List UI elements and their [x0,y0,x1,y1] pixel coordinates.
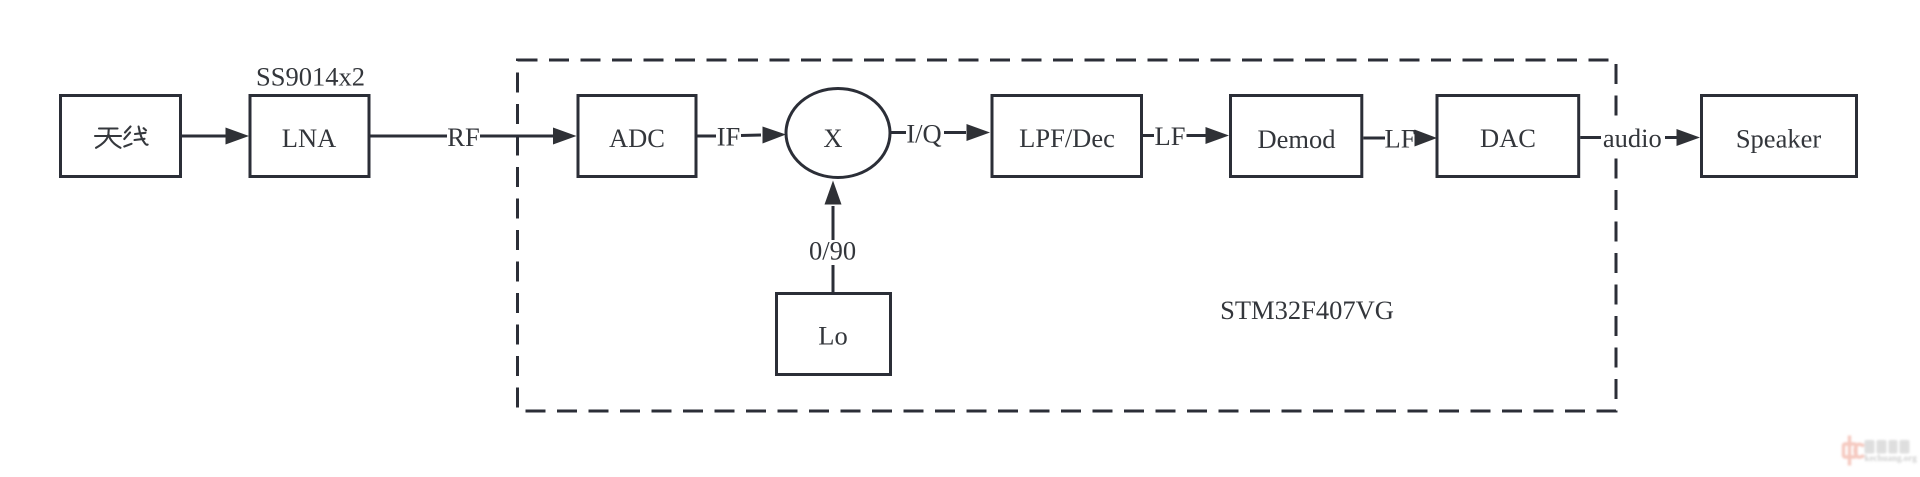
wire IF -> mixer [741,134,761,138]
wire LNA -> RF [371,135,448,138]
svg-text:LPF/Dec: LPF/Dec [1019,123,1115,153]
arrowhead into ADC [553,128,577,145]
dashed STM32F407VG boundary box [518,60,1617,411]
arrowhead into mixer [763,127,787,144]
wire audio -> Speaker [1665,136,1678,139]
svg-text:kechuang.org: kechuang.org [1865,453,1918,463]
block Demod [1231,96,1362,177]
svg-text:Lo: Lo [818,321,847,351]
block LPF/Dec [992,96,1142,177]
svg-text:I/Q: I/Q [906,119,941,149]
arrowhead into LNA [226,128,250,145]
block LNA [250,96,369,177]
mixer X (circle) [786,89,890,178]
svg-text:X: X [823,123,842,153]
wire DAC -> audio [1580,136,1601,139]
arrowhead into Speaker [1677,129,1701,146]
wire LF -> Demod [1187,134,1207,137]
arrowhead into DAC [1415,130,1438,147]
block ADC [578,96,696,177]
天线 glyph 天 (SVG path, CJK) [95,129,121,148]
wire LPF/Dec -> LF [1143,134,1154,137]
天线 glyph 线 (SVG path, CJK) [124,127,147,147]
wire 天线 -> LNA [182,135,228,138]
wire ADC -> IF [698,135,717,138]
svg-text:LF: LF [1155,121,1186,151]
arrowhead into LPF/Dec [967,124,991,141]
wire 0/90 -> mixer (upper segment) [832,206,835,240]
arrowhead into Demod [1206,127,1230,144]
wire RF -> ADC [480,135,555,138]
block Speaker [1702,96,1857,177]
svg-text:SS9014x2: SS9014x2 [256,62,365,92]
block 天线 (antenna) [61,96,181,177]
svg-text:DAC: DAC [1480,123,1536,153]
svg-text:LNA: LNA [282,123,336,153]
svg-text:ADC: ADC [609,123,665,153]
arrowhead into mixer bottom [825,181,842,205]
wire Lo -> 0/90 (lower segment) [832,265,835,292]
svg-text:audio: audio [1603,123,1662,153]
svg-text:IF: IF [717,122,741,152]
wire mixer -> I/Q [891,131,906,134]
svg-text:STM32F407VG: STM32F407VG [1220,295,1394,325]
svg-text:Speaker: Speaker [1736,124,1822,154]
wire I/Q -> LPF/Dec [944,131,966,134]
block Lo (local oscillator) [777,294,891,375]
label audio (white background covers dashed border) [1601,119,1664,158]
svg-text:RF: RF [447,122,479,152]
svg-text:LF: LF [1385,124,1416,154]
svg-text:Demod: Demod [1257,124,1335,154]
wire Demod -> LF [1363,137,1385,140]
watermark logo (kechuang.org) [1844,436,1918,466]
block DAC [1437,96,1579,177]
